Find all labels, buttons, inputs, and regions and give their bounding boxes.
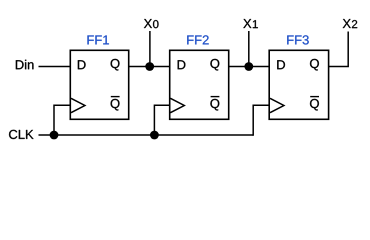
label FF2 xyxy=(187,35,208,44)
FF3 Qbar overline xyxy=(310,96,319,98)
wire FF1 Q to FF2 D xyxy=(129,66,170,68)
flip-flop FF3 box xyxy=(269,50,328,119)
wire CLK bus xyxy=(39,134,254,136)
FF1 pin Qbar label xyxy=(111,99,120,111)
FF1 pin Q label xyxy=(111,59,120,71)
wire Din to FF1 D input xyxy=(39,66,71,68)
FF2 clock input triangle xyxy=(170,98,184,112)
FF1 pin D label xyxy=(78,60,86,69)
FF3 pin Qbar label xyxy=(310,99,319,111)
wire X0 drop xyxy=(149,31,151,67)
wire X1 drop xyxy=(248,31,250,67)
FF2 Qbar overline xyxy=(211,96,220,98)
node CLK junction dot FF1 xyxy=(50,131,59,140)
node X0 junction dot xyxy=(145,62,154,71)
FF3 pin Q label xyxy=(310,59,319,71)
node CLK junction dot FF2 xyxy=(150,131,159,140)
label FF3 xyxy=(287,35,308,44)
label CLK xyxy=(9,130,33,139)
label X2 xyxy=(343,19,358,28)
FF1 Qbar overline xyxy=(111,96,120,98)
wire FF3 Q output to X2 xyxy=(329,32,349,67)
flip-flop FF2 box xyxy=(170,50,229,119)
wire CLK branch to FF2 xyxy=(154,105,169,135)
FF3 pin D label xyxy=(277,60,285,69)
wire CLK branch to FF3 xyxy=(253,105,269,136)
flip-flop FF1 box xyxy=(70,50,128,119)
label X0 xyxy=(144,19,159,28)
label FF1 xyxy=(87,35,108,44)
FF2 pin D label xyxy=(178,60,186,69)
wire FF2 Q to FF3 D xyxy=(229,66,270,68)
FF1 clock input triangle xyxy=(71,98,85,112)
FF2 pin Qbar label xyxy=(210,99,219,111)
label X1 xyxy=(243,19,258,28)
label Din xyxy=(16,60,34,69)
wire CLK branch to FF1 xyxy=(54,105,70,135)
FF2 pin Q label xyxy=(210,59,219,71)
node X1 junction dot xyxy=(244,62,253,71)
FF3 clock input triangle xyxy=(270,98,284,112)
